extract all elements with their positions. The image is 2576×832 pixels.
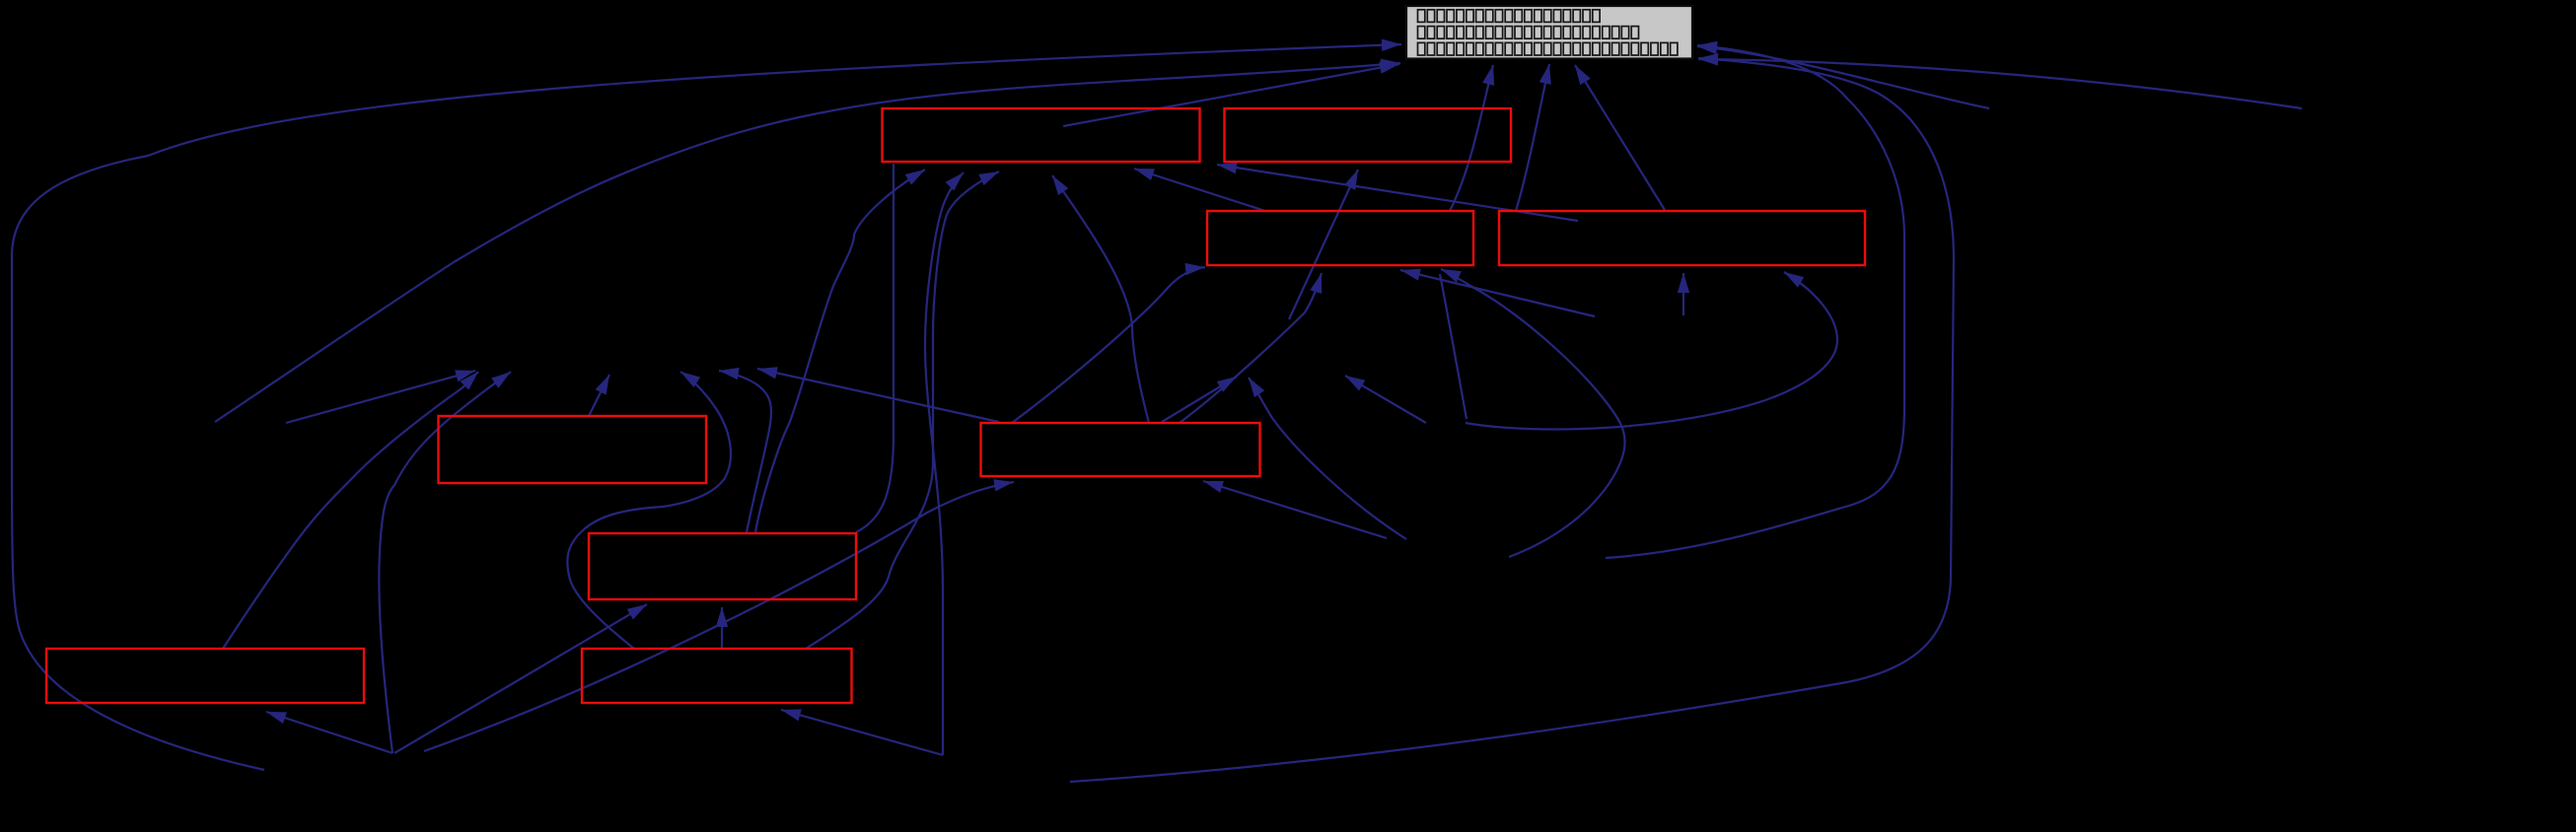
wire edge Y1 to X2 (1345, 376, 1426, 423)
wire edge G to X1 (steep curve) (719, 371, 771, 532)
wire edge X3 to D bottom vertical (1682, 273, 1684, 315)
wire edge from invisible node (218,428) to TOP bottom-left (215, 63, 1400, 422)
node D (red truncated box) (1499, 211, 1865, 265)
wire edge Y1 to C bottom (steep feed) (1440, 274, 1467, 419)
wire edge from invisible node Y1 around right side into D bottom (apex curve) (1466, 272, 1837, 429)
wire edge V1' to C bottom (steep S on right) (1441, 269, 1625, 557)
wire edge A to TOP (1063, 64, 1399, 126)
wire edge BN1 to X1 (379, 372, 511, 753)
node G (red truncated box) (589, 533, 856, 599)
wire edge F to C bottom (1180, 273, 1322, 423)
wire edge BN2 to A (near vertical) (925, 173, 964, 755)
wire edge D to TOP curved (1516, 64, 1549, 211)
wire edge invisible node (290,429) to X1 straight (286, 371, 475, 423)
wire edge V1 to X2 (curved from below) (1249, 378, 1406, 539)
wire edge H to X1 (223, 372, 478, 649)
wire edge from invisible node (2334,110) to TOP right edge (1698, 59, 2302, 108)
wire edge A to G (near vertical at x906) (856, 164, 894, 532)
node TOP (gray current-file box) (1406, 6, 1692, 59)
wire edge I to A (long vertical) (806, 172, 999, 649)
wire edge D to TOP straight (1575, 65, 1665, 210)
node H (red truncated box) (46, 649, 364, 703)
wire edge I to G vertical (721, 607, 723, 649)
node I (red truncated box) (582, 649, 852, 703)
wire edge G to A (big S hook) (755, 170, 925, 532)
wire edge BN1 to H bottom (266, 712, 393, 753)
wire edge E to X1 (589, 375, 609, 416)
wire edge I to X1 (curl around E right side) (567, 372, 731, 649)
wire edge to A bottom-right corner (long shallow line) (1217, 165, 1578, 221)
wire edge X2 to B bottom (1289, 170, 1358, 319)
wire edge BN1 to F bottom (424, 482, 1014, 751)
wire edge F to X2 (1162, 377, 1237, 422)
node E (red truncated box) (439, 416, 707, 483)
node C (red truncated box) (1207, 211, 1473, 265)
wire edge BN2 to I bottom (781, 710, 943, 755)
wire edge V1 to F bottom (1203, 481, 1387, 538)
wire edge C to TOP (1450, 65, 1493, 211)
node F (red truncated box) (981, 423, 1260, 476)
wire edge big outer right loop from bottom node to TOP right edge (1070, 58, 1954, 782)
wire edge F to C bottom-left corner (1012, 267, 1205, 423)
wire edge loop from invisible node V2 to TOP right edge (middle right loop) (1606, 45, 1904, 558)
node B (red truncated box) (1225, 108, 1512, 162)
wire edge X3 to C bottom (1400, 270, 1595, 316)
wire edge F to X1 (757, 369, 999, 422)
wire edge from invisible node (2017,110) to TOP right edge (1697, 46, 1989, 108)
wire edge BN1 to G bottom (394, 604, 647, 753)
wire edge from bottom-left node to TOP (long left swoosh), arrow at TOP left edge (12, 44, 1401, 770)
node A (red truncated box) (883, 108, 1200, 162)
wire edge C to A (1134, 169, 1265, 211)
wire edge F to A (1052, 175, 1149, 423)
